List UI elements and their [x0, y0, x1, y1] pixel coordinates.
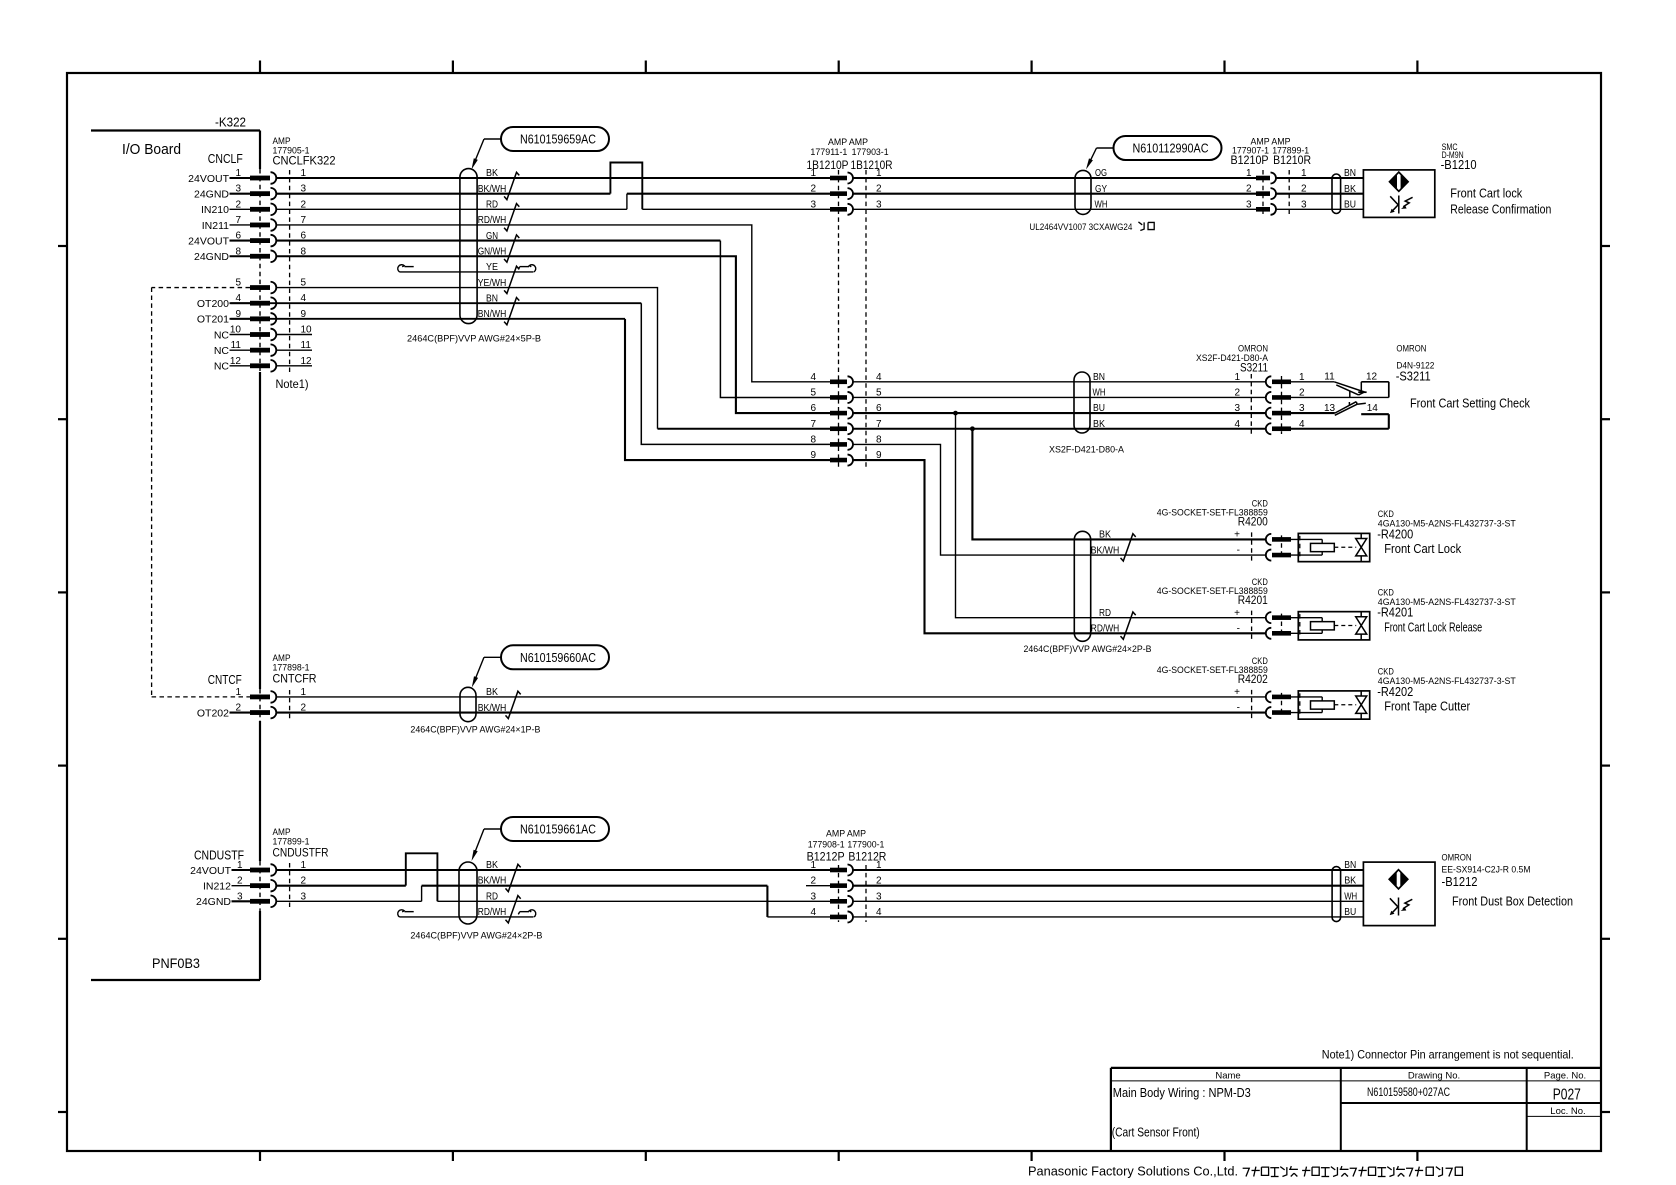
svg-text:S3211: S3211 [1240, 360, 1268, 374]
svg-text:N610112990AC: N610112990AC [1133, 141, 1209, 156]
svg-text:N610159659AC: N610159659AC [520, 132, 596, 147]
wire GN net 24VOUT: CNCLF pin6 to 1B1210P pin5 [276, 240, 720, 242]
svg-text:OT201: OT201 [197, 314, 229, 326]
svg-text:YE/WH: YE/WH [478, 278, 507, 289]
cable twisted pair marks [1121, 534, 1136, 561]
svg-text:177900-1: 177900-1 [847, 840, 884, 850]
svg-text:N610159580+027AC: N610159580+027AC [1367, 1085, 1450, 1099]
svg-text:1: 1 [1246, 168, 1252, 179]
wire BK net 24VOUT: CNCLF pin1 to 1B1210P pin1 [276, 177, 830, 179]
svg-text:Page. No.: Page. No. [1544, 1070, 1586, 1081]
svg-text:BU: BU [1093, 403, 1105, 414]
svg-text:24GND: 24GND [194, 251, 229, 263]
wire RD net IN210: CNCLF pin2 to 1B1210P pin2 [276, 208, 627, 210]
svg-text:NC: NC [214, 329, 230, 341]
wire stub B1212P pin2 [806, 885, 830, 887]
svg-text:2: 2 [810, 184, 816, 195]
svg-text:BK/WH: BK/WH [478, 703, 507, 714]
wire BN net OT200: CNCLF pin4 to 1B1210P pin8 [231, 302, 642, 304]
svg-text:2464C(BPF)VVP AWG#24×1P-B: 2464C(BPF)VVP AWG#24×1P-B [410, 725, 540, 736]
node OT200/CNTCF interlock dashed link [152, 287, 250, 289]
svg-text:4: 4 [1234, 419, 1240, 430]
wire BK: BK junction to R4200 plus [972, 429, 1265, 540]
svg-text:-: - [1237, 623, 1240, 634]
svg-text:CNCLF: CNCLF [208, 152, 243, 166]
svg-text:CKD: CKD [1378, 587, 1394, 597]
svg-text:NC: NC [214, 345, 230, 357]
svg-text:BK/WH: BK/WH [478, 184, 507, 195]
svg-text:-R4200: -R4200 [1377, 527, 1413, 541]
cable sheath 2464C 2P to R4200/R4201 [1074, 531, 1090, 641]
svg-text:2: 2 [810, 876, 816, 887]
cable twisted pair marks [506, 864, 521, 891]
sensor B1212 OMRON EE-SX914 box [1363, 862, 1435, 926]
svg-text:Front Tape Cutter: Front Tape Cutter [1384, 700, 1470, 714]
svg-text:24GND: 24GND [196, 896, 231, 908]
svg-text:IN211: IN211 [202, 220, 229, 232]
svg-text:CNCLFK322: CNCLFK322 [273, 154, 336, 168]
connector R4201 dashed boundaries [1251, 611, 1253, 641]
svg-text:1: 1 [235, 687, 241, 698]
svg-text:Front Cart Lock: Front Cart Lock [1384, 542, 1462, 556]
svg-text:3: 3 [810, 891, 816, 902]
svg-text:Front Cart Setting Check: Front Cart Setting Check [1410, 397, 1531, 411]
wire BN: B1210R to sensor B1210 [1276, 177, 1363, 179]
svg-text:12: 12 [1366, 371, 1378, 382]
svg-text:14: 14 [1367, 403, 1379, 414]
svg-text:Front Dust Box Detection: Front Dust Box Detection [1452, 895, 1573, 909]
svg-text:RD: RD [486, 200, 498, 211]
frame tick marks right [1601, 245, 1610, 247]
wire OG: 1B1210R pin1 to B1210P pin1 [853, 177, 1256, 179]
connector 1B1210 dashed boundaries [838, 170, 840, 467]
svg-text:Name: Name [1215, 1070, 1240, 1081]
svg-text:RD: RD [1099, 608, 1111, 619]
cable sheath 2464C 1P CNTCF [460, 687, 476, 721]
cable 1 twisted pair marks [504, 172, 519, 199]
callout N610159660AC [501, 645, 609, 669]
svg-text:2: 2 [1234, 387, 1240, 398]
svg-text:8: 8 [810, 434, 816, 445]
connector R4202 dashed boundaries [1251, 690, 1253, 720]
svg-text:BU: BU [1344, 200, 1356, 211]
wire WH: 1B1210R pin5 to S3211 pin2 [853, 396, 1266, 398]
svg-text:NC: NC [214, 361, 230, 373]
svg-text:177903-1: 177903-1 [852, 147, 889, 157]
svg-text:RD/WH: RD/WH [478, 215, 507, 226]
connector CNCLF dashed boundary [289, 170, 291, 372]
svg-text:CKD: CKD [1378, 667, 1394, 677]
svg-text:EE-SX914-C2J-R 0.5M: EE-SX914-C2J-R 0.5M [1442, 865, 1531, 875]
callout N610159659AC [501, 127, 609, 151]
svg-text:CNTCFR: CNTCFR [273, 672, 317, 686]
svg-text:24VOUT: 24VOUT [188, 235, 229, 247]
svg-text:Note1) Connector Pin arrangeme: Note1) Connector Pin arrangement is not … [1322, 1048, 1574, 1062]
svg-text:11: 11 [1324, 371, 1335, 382]
wire GN/WH net 24GND: CNCLF pin8 to 1B1210P pin6 [276, 256, 830, 413]
svg-text:OMRON: OMRON [1396, 344, 1426, 354]
svg-text:BK: BK [486, 860, 498, 871]
svg-text:2: 2 [1246, 184, 1252, 195]
svg-text:-K322: -K322 [215, 116, 246, 130]
svg-text:I/O Board: I/O Board [122, 141, 181, 158]
svg-text:BK: BK [1344, 184, 1356, 195]
svg-text:AMP AMP: AMP AMP [828, 137, 868, 147]
wire WH: B1212R pin3 to sensor B1212 [853, 900, 1363, 902]
svg-text:BK/WH: BK/WH [478, 876, 507, 887]
wire RD/WH: 1B1210R pin9 to R4201 minus [853, 460, 1266, 633]
svg-text:3: 3 [1234, 403, 1240, 414]
I/O Board outline -K322 / PNF0B3 bus [91, 129, 260, 131]
svg-text:24VOUT: 24VOUT [188, 173, 229, 185]
svg-text:-B1210: -B1210 [1441, 158, 1477, 172]
sensor B1210 SMC D-M9N box [1363, 170, 1434, 218]
svg-text:5: 5 [810, 387, 816, 398]
svg-text:OT200: OT200 [197, 298, 229, 310]
wire YE/WH: CNCLF pin5 to 1B1210P pin7 [276, 288, 657, 429]
connector R4200 dashed boundaries [1251, 532, 1253, 562]
svg-text:N610159660AC: N610159660AC [520, 650, 596, 665]
svg-text:R4200: R4200 [1238, 515, 1268, 529]
svg-text:XS2F-D421-D80-A: XS2F-D421-D80-A [1049, 445, 1125, 456]
svg-text:Panasonic Factory Solutions Co: Panasonic Factory Solutions Co.,Ltd. [1028, 1165, 1238, 1179]
connector CNTCF dashed boundary [289, 690, 291, 720]
svg-text:-R4202: -R4202 [1377, 685, 1413, 699]
cable sheath 2464C 5P CNCLF [460, 169, 477, 324]
svg-text:BN: BN [1344, 168, 1356, 179]
cable sheath 2464C 2P CNDUSTF [459, 862, 477, 924]
svg-text:-B1212: -B1212 [1442, 875, 1478, 889]
wire GY: 1B1210R pin2 to B1210P pin2 [853, 193, 1256, 195]
svg-text:OG: OG [1095, 168, 1107, 179]
svg-text:6: 6 [810, 403, 816, 414]
svg-text:1: 1 [1234, 372, 1240, 383]
wire RD/WH unused conductor with cut hooks [400, 916, 534, 918]
wire BN/WH net OT201: CNCLF pin9 to 1B1210P pin9 [231, 318, 626, 320]
svg-text:B1210P: B1210P [1231, 153, 1269, 167]
svg-text:Release Confirmation: Release Confirmation [1450, 203, 1551, 217]
svg-text:YE: YE [486, 262, 498, 273]
svg-text:IN210: IN210 [201, 204, 229, 216]
svg-text:2464C(BPF)VVP AWG#24×2P-B: 2464C(BPF)VVP AWG#24×2P-B [1024, 644, 1152, 655]
label kana kuro [1138, 222, 1142, 225]
title block frame [1111, 1067, 1601, 1069]
svg-text:Front Cart Lock Release: Front Cart Lock Release [1384, 620, 1482, 634]
connector B1210P dashed boundaries [1262, 170, 1264, 216]
connector S3211 dashed boundaries [1250, 374, 1252, 436]
svg-text:R4201: R4201 [1238, 593, 1268, 607]
svg-text:-R4201: -R4201 [1377, 606, 1413, 620]
svg-text:Drawing No.: Drawing No. [1408, 1070, 1460, 1081]
svg-text:BN/WH: BN/WH [478, 309, 507, 320]
svg-text:GN/WH: GN/WH [478, 246, 507, 257]
svg-text:BK: BK [486, 168, 498, 179]
svg-text:177908-1: 177908-1 [808, 840, 845, 850]
cable sheath UL2464 3-core [1075, 170, 1091, 214]
wire BN: 1B1210R pin4 to S3211 pin1 [853, 381, 1266, 383]
wire BU: B1210R to sensor B1210 [1276, 208, 1363, 210]
svg-text:AMP: AMP [273, 827, 291, 837]
cable twisted pair mark [506, 691, 521, 718]
wire RD/WH net IN211: CNCLF pin7 to 1B1210P pin4 [276, 225, 830, 382]
svg-text:Note1): Note1) [276, 377, 309, 391]
svg-text:BN: BN [1344, 860, 1356, 871]
svg-text:3: 3 [1246, 199, 1252, 210]
connector CNDUSTF dashed boundary [289, 863, 291, 908]
wire BK/WH: 1B1210R pin8 to R4200 minus [853, 444, 1266, 555]
junction BK branch [970, 426, 975, 431]
svg-text:-S3211: -S3211 [1396, 369, 1431, 383]
svg-text:BK: BK [486, 687, 498, 698]
svg-text:Main Body Wiring : NPM-D3: Main Body Wiring : NPM-D3 [1113, 1086, 1251, 1100]
svg-text:IN212: IN212 [203, 880, 231, 892]
cable sheath B1212 pigtail [1332, 867, 1341, 922]
svg-text:24GND: 24GND [194, 188, 229, 200]
svg-text:3: 3 [810, 199, 816, 210]
svg-text:1: 1 [810, 168, 816, 179]
wire BK: B1212R pin2 to sensor B1212 [853, 885, 1363, 887]
svg-text:4: 4 [810, 372, 816, 383]
connector B1212 dashed boundaries [838, 865, 840, 922]
cable sheath B1210 pigtail [1332, 174, 1341, 214]
callout N610159661AC [501, 817, 609, 841]
wire BK: 1B1210R pin7 to S3211 pin4 [853, 428, 1266, 430]
svg-text:RD/WH: RD/WH [1091, 624, 1120, 635]
svg-text:WH: WH [1093, 387, 1106, 398]
wire BN: B1212R pin1 to sensor B1212 [853, 869, 1363, 871]
svg-text:WH: WH [1344, 891, 1357, 902]
frame tick marks top [259, 61, 261, 74]
svg-text:AMP AMP: AMP AMP [826, 829, 866, 839]
svg-text:BU: BU [1344, 907, 1356, 918]
wire BU: 1B1210R pin6 to S3211 pin3 [853, 412, 1266, 414]
svg-text:+: + [1234, 608, 1240, 619]
wire BK/WH net OT202: CNTCF pin2 to R4202 minus [276, 711, 1266, 713]
wire BK: B1210R to sensor B1210 [1276, 193, 1363, 195]
svg-text:UL2464VV1007 3CXAWG24: UL2464VV1007 3CXAWG24 [1029, 222, 1132, 233]
svg-text:AMP: AMP [273, 136, 291, 146]
svg-text:(Cart Sensor Front): (Cart Sensor Front) [1112, 1126, 1200, 1140]
svg-text:2464C(BPF)VVP AWG#24×2P-B: 2464C(BPF)VVP AWG#24×2P-B [410, 931, 542, 942]
wire RD net IN212: CNDUSTF pin2 hop to B1212P pin3 [276, 885, 406, 887]
svg-text:7: 7 [810, 419, 816, 430]
frame tick marks bottom [259, 1151, 261, 1161]
wire BK/WH net 24GND: CNDUSTF pin3 to B1212P pin4 [276, 900, 421, 902]
svg-text:AMP: AMP [273, 653, 291, 663]
svg-text:RD/WH: RD/WH [478, 907, 507, 918]
svg-text:BK: BK [1093, 419, 1105, 430]
svg-text:1: 1 [810, 860, 816, 871]
solenoid valve R4200 body [1298, 533, 1369, 561]
svg-text:BK: BK [1344, 876, 1356, 887]
svg-text:GN: GN [486, 231, 498, 242]
wire BK net 24VOUT: CNDUSTF pin1 to B1212P pin1 [276, 869, 830, 871]
svg-text:+: + [1234, 530, 1240, 541]
svg-text:OT202: OT202 [197, 707, 229, 719]
wire BK: CNTCF pin1 to R4202 plus [276, 696, 1266, 698]
wire BU: B1212R pin4 to sensor B1212 [853, 916, 1363, 918]
svg-text:CKD: CKD [1378, 509, 1394, 519]
footer company name katakana [1243, 1168, 1250, 1176]
junction BU branch [953, 411, 958, 416]
solenoid valve R4201 body [1298, 612, 1369, 640]
svg-text:CNDUSTFR: CNDUSTFR [273, 846, 329, 860]
svg-text:BK: BK [1099, 530, 1111, 541]
solenoid valve R4202 body [1298, 691, 1369, 719]
callout N610112990AC [1114, 136, 1222, 160]
wire RD: BU junction to R4201 plus [956, 413, 1266, 618]
svg-text:RD: RD [486, 891, 498, 902]
svg-text:-: - [1237, 545, 1240, 556]
svg-text:BN: BN [486, 293, 498, 304]
svg-text:Front Cart lock: Front Cart lock [1450, 187, 1523, 201]
frame tick marks left [58, 245, 67, 247]
svg-text:WH: WH [1095, 200, 1108, 211]
svg-text:9: 9 [810, 450, 816, 461]
footer company name kanji [1426, 1167, 1433, 1175]
svg-text:CNTCF: CNTCF [208, 673, 242, 687]
svg-text:1B1210R: 1B1210R [851, 158, 893, 172]
svg-text:Loc. No.: Loc. No. [1550, 1106, 1585, 1117]
cable sheath XS2F 4-core [1074, 372, 1090, 433]
svg-text:2464C(BPF)VVP AWG#24×5P-B: 2464C(BPF)VVP AWG#24×5P-B [407, 334, 541, 345]
svg-text:24VOUT: 24VOUT [190, 865, 231, 877]
svg-text:R4202: R4202 [1238, 672, 1268, 686]
wire WH: 1B1210R pin3 to B1210P pin3 [853, 208, 1256, 210]
svg-text:BN: BN [1093, 372, 1105, 383]
wire BK/WH net 24GND: CNCLF pin3 hop to 1B1210P pin3 [276, 193, 610, 195]
svg-text:GY: GY [1095, 184, 1107, 195]
svg-text:B1210R: B1210R [1273, 153, 1311, 167]
svg-text:P027: P027 [1553, 1086, 1581, 1103]
svg-text:OMRON: OMRON [1442, 853, 1472, 863]
svg-text:4: 4 [810, 907, 816, 918]
svg-text:PNF0B3: PNF0B3 [152, 956, 200, 971]
svg-text:N610159661AC: N610159661AC [520, 822, 596, 837]
svg-text:177911-1: 177911-1 [810, 147, 847, 157]
svg-text:BK/WH: BK/WH [1091, 545, 1120, 556]
wire YE unused conductor with cut hooks [400, 271, 534, 273]
